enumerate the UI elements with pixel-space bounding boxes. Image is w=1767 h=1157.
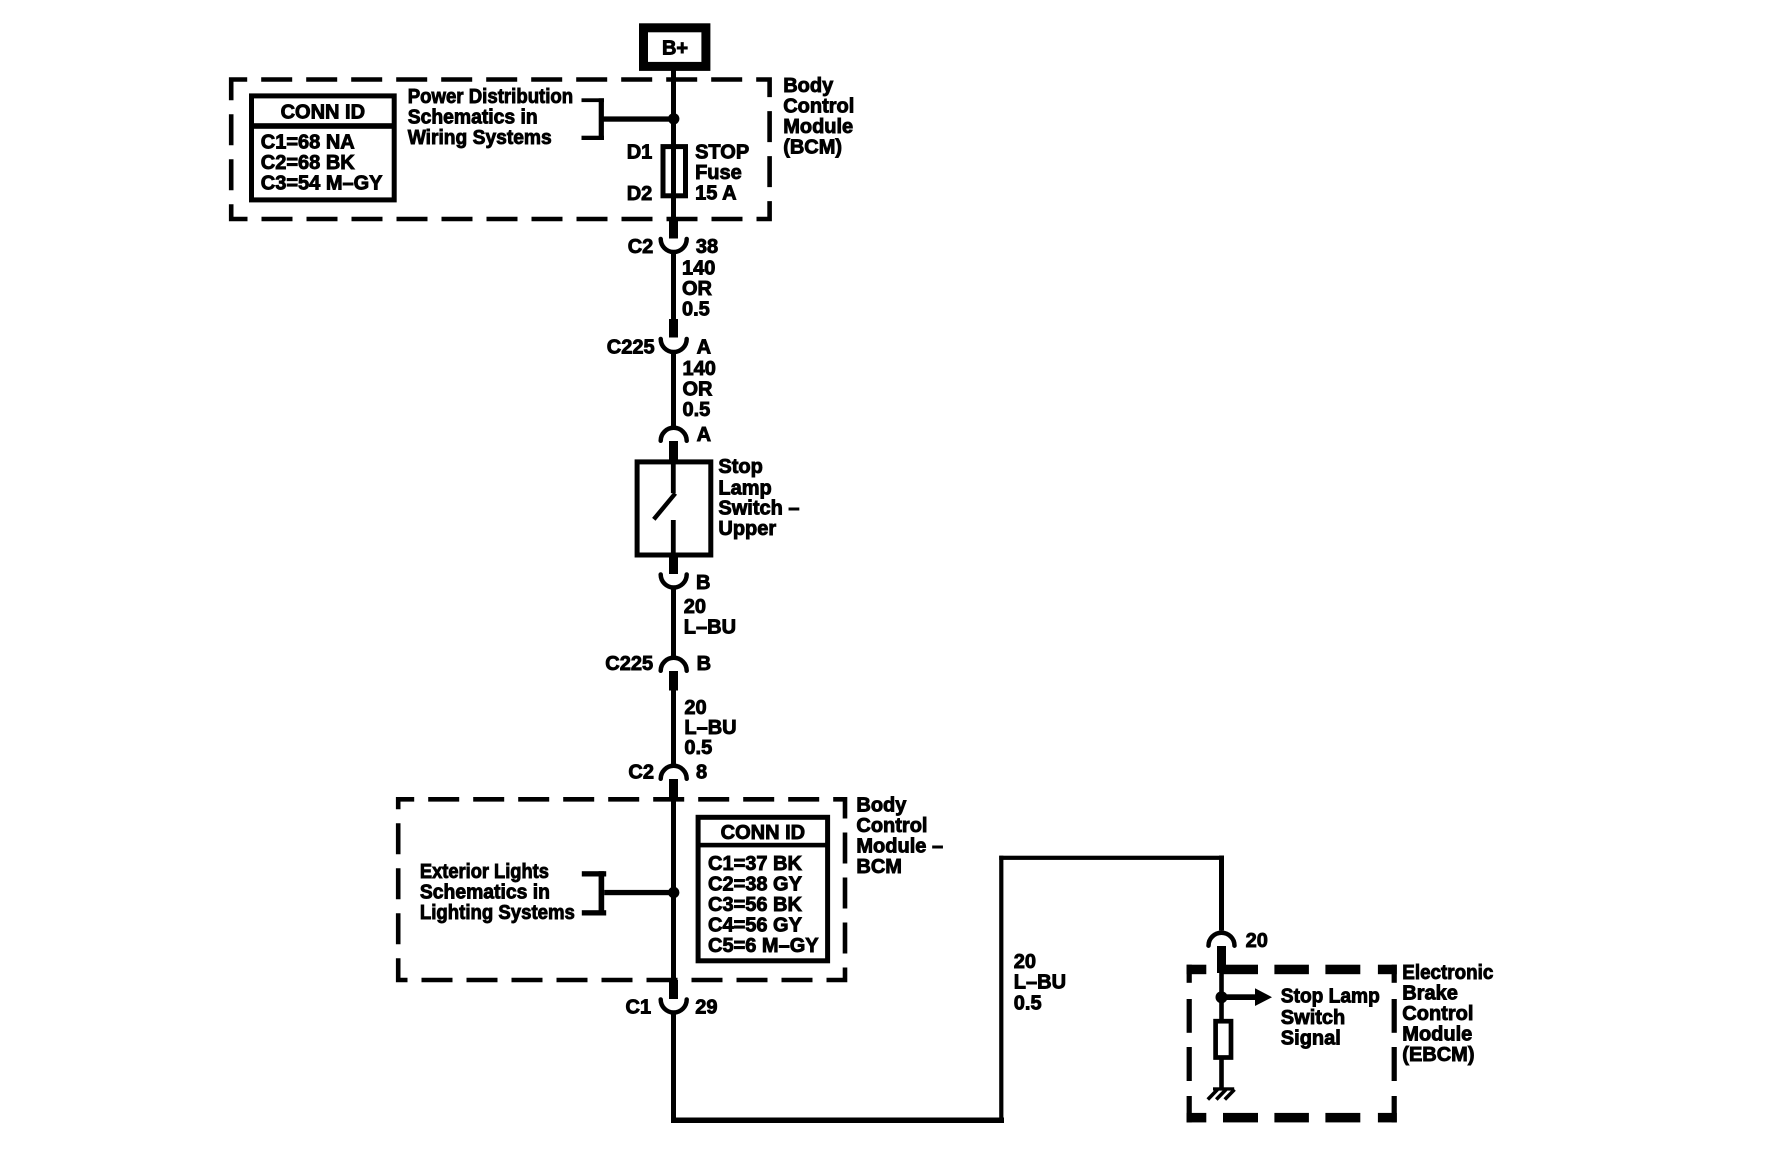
terminal stub into connector C1-29	[669, 980, 678, 999]
svg-text:C4=56 GY: C4=56 GY	[708, 915, 803, 937]
svg-text:Upper: Upper	[718, 518, 776, 540]
svg-text:140: 140	[682, 258, 715, 280]
svg-text:C2: C2	[628, 762, 654, 784]
svg-text:0.5: 0.5	[683, 399, 711, 421]
svg-text:STOP: STOP	[695, 141, 749, 163]
wire C225-B to BCM C2-8, circuit 20 L-BU 0.5	[671, 691, 737, 765]
wire note bracket to BCM feed	[604, 890, 676, 895]
svg-text:140: 140	[683, 358, 716, 380]
connector pin A at switch	[661, 424, 711, 446]
switch upper contact	[671, 459, 676, 493]
junction node in BCM box	[668, 887, 679, 898]
svg-text:D2: D2	[627, 183, 653, 205]
terminal stub switch pin A	[669, 441, 678, 460]
stop lamp switch box	[637, 462, 711, 555]
terminal stub below C225-B	[669, 671, 678, 691]
wire resistance to ground	[1219, 1058, 1224, 1089]
svg-text:Body: Body	[856, 794, 907, 816]
svg-text:B: B	[696, 572, 710, 594]
svg-text:Power Distribution: Power Distribution	[408, 86, 574, 108]
svg-text:Module: Module	[783, 116, 853, 138]
svg-text:D1: D1	[627, 141, 653, 163]
svg-text:L–BU: L–BU	[684, 717, 736, 739]
signal label	[1281, 986, 1380, 1050]
BCM module label	[783, 75, 854, 159]
wire C2-38 to C225-A, circuit 140 OR 0.5	[671, 252, 715, 321]
svg-text:C2=68 BK: C2=68 BK	[261, 152, 355, 174]
svg-text:B+: B+	[662, 38, 688, 60]
wire top horizontal run to EBCM	[999, 856, 1224, 860]
svg-text:Module: Module	[1402, 1024, 1472, 1046]
svg-text:Brake: Brake	[1402, 982, 1458, 1004]
terminal stub into connector C2-38	[669, 219, 678, 239]
svg-text:CONN ID: CONN ID	[281, 101, 365, 123]
fuse name label	[695, 141, 749, 204]
svg-text:A: A	[697, 337, 711, 359]
terminal stub below pin 20	[1217, 946, 1226, 973]
note Power Distribution Schematics in Wiring Systems	[408, 86, 574, 149]
svg-text:C1=68 NA: C1=68 NA	[261, 132, 355, 154]
connector C225 pin A	[607, 337, 711, 359]
note Exterior Lights Schematics in Lighting Systems	[420, 861, 575, 924]
svg-text:Schematics in: Schematics in	[408, 107, 538, 129]
svg-text:(BCM): (BCM)	[783, 137, 842, 159]
svg-text:Control: Control	[856, 815, 927, 837]
CONN ID table (BCM top)	[252, 96, 395, 200]
connector C225 pin B	[605, 653, 711, 675]
svg-text:Electronic: Electronic	[1402, 962, 1493, 984]
signal arrow Stop Lamp Switch Signal	[1222, 988, 1273, 1006]
svg-text:15 A: 15 A	[695, 182, 737, 204]
EBCM module label	[1402, 962, 1493, 1066]
wire B+ to fuse (main vertical feed)	[671, 70, 676, 222]
svg-text:OR: OR	[682, 278, 713, 300]
EBCM module dashed box	[1187, 965, 1397, 1123]
BCM module dashed box (top)	[231, 80, 769, 220]
connector C1 pin 29	[626, 997, 718, 1019]
fuse STOP 15 A	[663, 147, 686, 196]
svg-text:Module –: Module –	[856, 835, 943, 857]
svg-text:B: B	[697, 653, 711, 675]
svg-text:20: 20	[684, 697, 706, 719]
svg-text:C3=54 M–GY: C3=54 M–GY	[261, 173, 383, 195]
svg-text:C5=6 M–GY: C5=6 M–GY	[708, 935, 819, 957]
wire pin 20 to signal junction	[1219, 972, 1224, 999]
svg-text:L–BU: L–BU	[684, 617, 736, 639]
wire switch B to C225-B, circuit 20 L-BU	[671, 588, 736, 657]
svg-text:Signal: Signal	[1281, 1028, 1341, 1050]
wire drop to EBCM pin 20	[1219, 856, 1224, 931]
fuse pin label D2	[627, 183, 653, 205]
svg-text:C3=56 BK: C3=56 BK	[708, 894, 802, 916]
switch lower contact	[671, 520, 676, 554]
connector pin 20 at EBCM	[1209, 930, 1268, 952]
svg-text:Exterior Lights: Exterior Lights	[420, 861, 549, 883]
wire C225-A to switch, circuit 140 OR 0.5	[671, 352, 716, 426]
fuse pin label D1	[627, 141, 653, 163]
connector pin B at switch	[661, 572, 711, 594]
svg-text:20: 20	[1246, 930, 1268, 952]
connector C2 pin 38	[628, 236, 718, 258]
svg-text:OR: OR	[683, 379, 714, 401]
wire bottom horizontal run	[671, 1118, 1004, 1124]
bracket for power distribution note	[582, 98, 605, 140]
svg-text:(EBCM): (EBCM)	[1402, 1044, 1474, 1066]
svg-text:C2=38 GY: C2=38 GY	[708, 874, 803, 896]
svg-text:0.5: 0.5	[684, 737, 712, 759]
svg-text:Wiring Systems: Wiring Systems	[408, 127, 552, 149]
svg-text:Lamp: Lamp	[718, 477, 771, 499]
svg-text:Switch: Switch	[1281, 1007, 1345, 1029]
terminal stub switch pin B	[669, 558, 678, 575]
CONN ID table (BCM lower)	[698, 817, 828, 961]
svg-text:20: 20	[684, 596, 706, 618]
svg-text:Schematics in: Schematics in	[420, 881, 550, 903]
terminal stub into connector C225-A	[669, 319, 678, 338]
junction node on B+ feed	[668, 113, 679, 124]
junction node EBCM signal	[1216, 991, 1228, 1003]
svg-text:C225: C225	[605, 653, 653, 675]
BCM module dashed box (lower)	[398, 799, 845, 980]
svg-text:Body: Body	[783, 75, 834, 97]
svg-text:Control: Control	[783, 96, 854, 118]
svg-text:Fuse: Fuse	[695, 162, 742, 184]
EBCM internal resistance element	[1216, 1021, 1231, 1057]
wire junction to internal resistance	[1219, 997, 1224, 1021]
svg-text:C225: C225	[607, 337, 655, 359]
switch blade (open)	[654, 493, 676, 519]
svg-text:C1: C1	[626, 997, 652, 1019]
power feed B+ terminal box	[644, 28, 706, 67]
circuit label 20 L-BU 0.5 (EBCM feed)	[1014, 951, 1066, 1015]
terminal stub below C2-8 into BCM	[669, 779, 678, 801]
svg-text:Stop Lamp: Stop Lamp	[1281, 986, 1380, 1008]
svg-text:L–BU: L–BU	[1014, 971, 1066, 993]
BCM lower module label	[856, 794, 943, 878]
svg-text:8: 8	[696, 762, 707, 784]
wire through BCM box (C2-8 to C1-29)	[671, 801, 676, 981]
svg-text:0.5: 0.5	[682, 299, 710, 321]
svg-text:A: A	[697, 424, 711, 446]
svg-text:38: 38	[696, 236, 718, 258]
svg-text:CONN ID: CONN ID	[721, 822, 805, 844]
svg-text:Control: Control	[1402, 1003, 1473, 1025]
svg-text:29: 29	[695, 997, 717, 1019]
svg-text:C1=37 BK: C1=37 BK	[708, 853, 802, 875]
wire right riser	[999, 856, 1003, 1123]
connector C2 pin 8 at BCM	[628, 762, 707, 784]
stop lamp switch label	[718, 456, 799, 540]
svg-text:Lighting Systems: Lighting Systems	[420, 902, 575, 924]
svg-text:C2: C2	[628, 236, 654, 258]
svg-text:20: 20	[1014, 951, 1036, 973]
wire note bracket to B+ feed	[602, 116, 676, 121]
wire C1-29 down	[671, 1013, 676, 1124]
bracket for exterior lights note	[582, 871, 606, 915]
svg-text:0.5: 0.5	[1014, 992, 1042, 1014]
ground (chassis)	[1208, 1087, 1235, 1099]
svg-text:Switch –: Switch –	[718, 497, 799, 519]
svg-text:BCM: BCM	[856, 856, 902, 878]
svg-text:Stop: Stop	[718, 456, 762, 478]
